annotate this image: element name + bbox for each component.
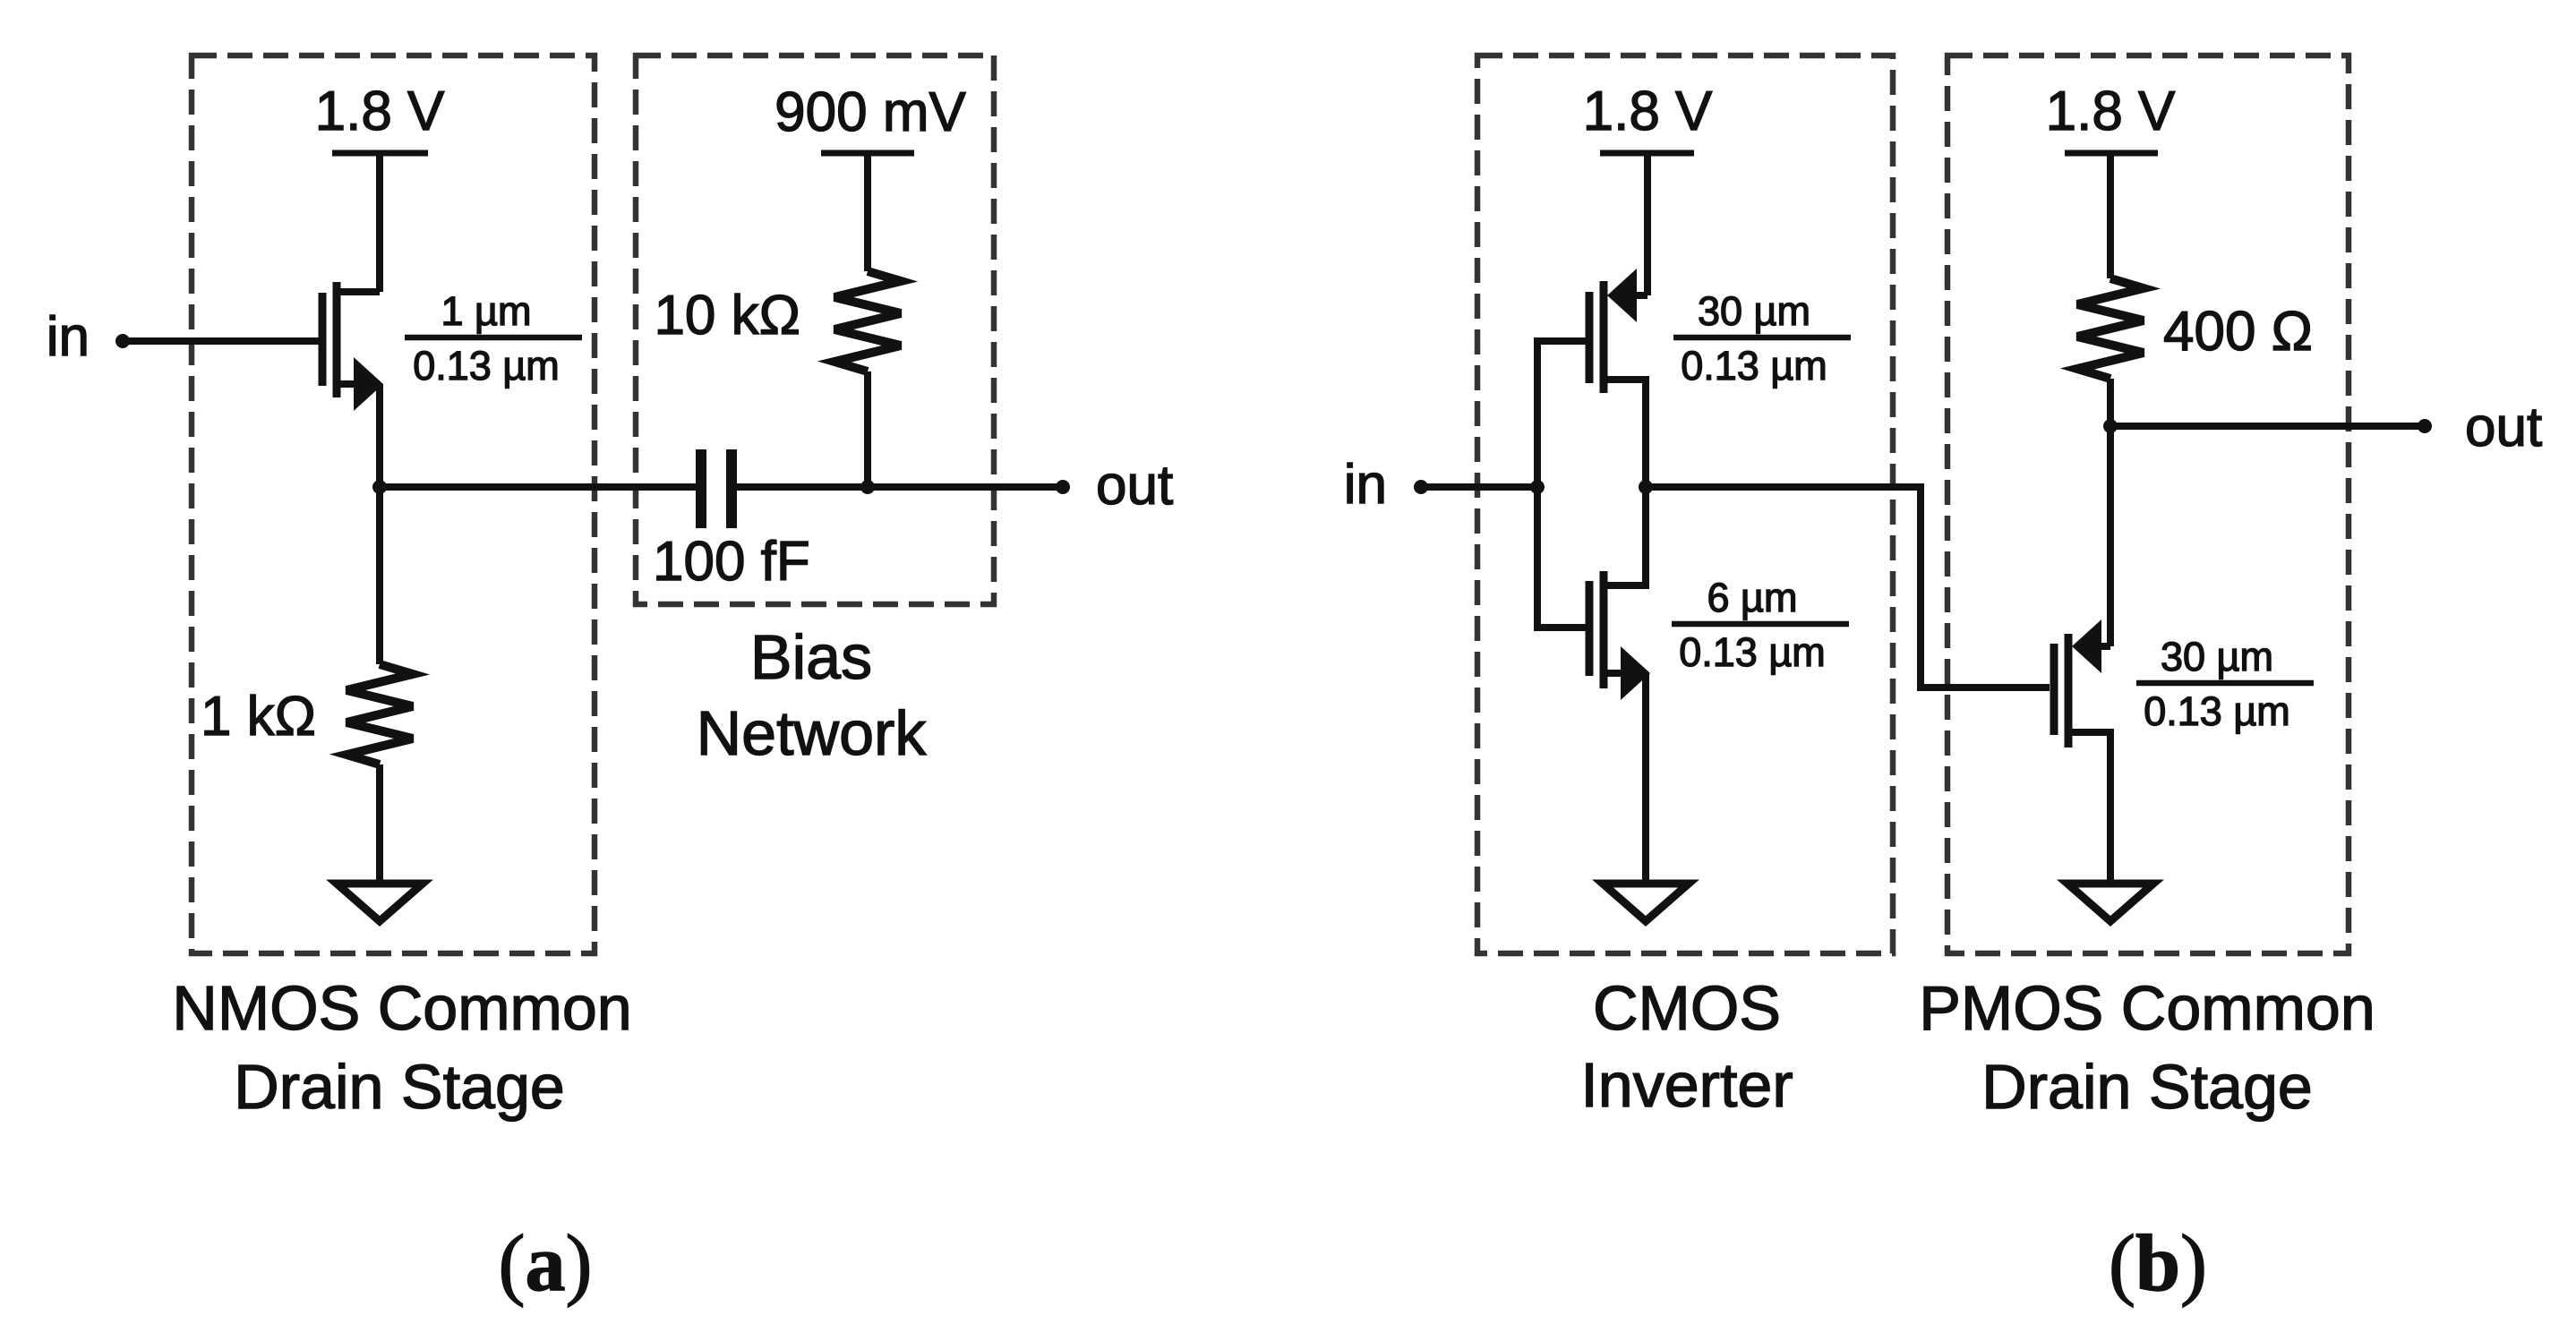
svg-text:0.13 µm: 0.13 µm	[2144, 688, 2290, 734]
svg-text:in: in	[47, 306, 90, 368]
svg-text:6 µm: 6 µm	[1707, 575, 1798, 620]
svg-text:1 kΩ: 1 kΩ	[201, 686, 316, 747]
svg-text:(b): (b)	[2109, 1219, 2207, 1308]
svg-text:30 µm: 30 µm	[2161, 634, 2273, 679]
svg-text:Drain Stage: Drain Stage	[1981, 1052, 2313, 1122]
svg-text:(a): (a)	[499, 1219, 593, 1308]
svg-text:out: out	[2465, 397, 2542, 458]
svg-text:1.8 V: 1.8 V	[315, 81, 445, 142]
svg-text:0.13 µm: 0.13 µm	[1679, 629, 1826, 675]
svg-text:Network: Network	[697, 698, 928, 768]
svg-text:900 mV: 900 mV	[775, 81, 966, 143]
svg-text:Bias: Bias	[750, 622, 872, 692]
svg-text:1.8 V: 1.8 V	[1583, 81, 1713, 142]
svg-text:10 kΩ: 10 kΩ	[654, 285, 800, 346]
svg-text:Inverter: Inverter	[1580, 1050, 1793, 1120]
svg-text:NMOS Common: NMOS Common	[172, 973, 631, 1043]
svg-text:0.13 µm: 0.13 µm	[1681, 343, 1827, 389]
svg-text:1 µm: 1 µm	[441, 288, 532, 334]
svg-text:Drain Stage: Drain Stage	[234, 1052, 565, 1122]
svg-text:1.8 V: 1.8 V	[2046, 81, 2176, 142]
svg-text:100 fF: 100 fF	[653, 531, 810, 593]
svg-text:0.13 µm: 0.13 µm	[413, 343, 560, 389]
svg-text:30 µm: 30 µm	[1698, 288, 1810, 334]
svg-text:CMOS: CMOS	[1593, 973, 1781, 1043]
svg-text:PMOS Common: PMOS Common	[1919, 973, 2375, 1043]
svg-text:400 Ω: 400 Ω	[2163, 301, 2313, 363]
svg-text:out: out	[1096, 455, 1173, 517]
svg-text:in: in	[1344, 454, 1387, 516]
